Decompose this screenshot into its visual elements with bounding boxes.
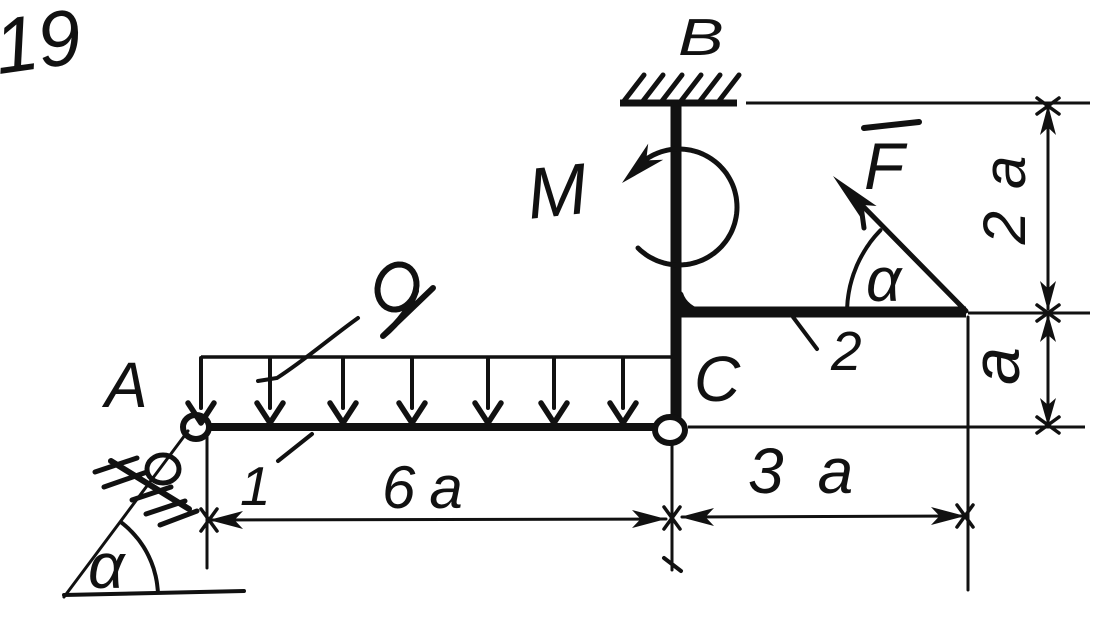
label 3a: [748, 435, 887, 507]
hinge circle at C: [655, 417, 685, 443]
svg-text:α: α: [88, 530, 126, 602]
dimension line 3a: [682, 516, 963, 517]
svg-text:C: C: [694, 343, 741, 415]
leader line for label q: [258, 318, 358, 381]
label A: [101, 349, 148, 421]
label alpha (at F): [866, 246, 903, 315]
dimension 6a right arrow: [632, 510, 666, 528]
crossing ticks at 3a right arrow tip: [957, 505, 973, 527]
label q: [378, 265, 434, 337]
svg-text:A: A: [101, 349, 148, 421]
moment M arrow head: [622, 144, 663, 183]
leader line for label 2: [793, 317, 817, 349]
dimension 2a bottom arrow: [1040, 281, 1056, 311]
label F: [864, 129, 908, 203]
dimension 2a top arrow: [1040, 105, 1056, 135]
svg-text:α: α: [866, 246, 903, 315]
angle alpha arc at F: [847, 230, 880, 313]
fixed support wall at B (surface line): [620, 100, 737, 107]
label 6a: [382, 454, 477, 521]
svg-text:2: 2: [830, 320, 862, 382]
dimension a bottom arrow: [1040, 398, 1056, 426]
dimension 6a left arrow: [209, 511, 243, 529]
bar 2 from corner to right end: [676, 307, 966, 318]
svg-text:1: 1: [240, 455, 271, 517]
tick at bottom of C extension: [664, 558, 681, 571]
svg-text:2a: 2a: [971, 134, 1038, 246]
moment M circular arrow arc: [638, 149, 737, 265]
vector bar over F: [864, 122, 919, 128]
label 1: [240, 455, 271, 517]
distributed load arrows: [188, 358, 636, 423]
beam 1 from A to C: [196, 423, 657, 431]
label 2: [830, 320, 862, 382]
fixed support wall at B (hatching): [624, 75, 739, 101]
label M: [523, 149, 591, 235]
force F arrow head: [833, 176, 877, 220]
top reference line from B support to right edge: [746, 102, 1090, 105]
roller circle at A support: [147, 455, 179, 483]
corner fillet where vertical bar meets bar 2: [681, 291, 706, 311]
dimension 3a right arrow: [931, 507, 965, 525]
leader tick for label 1: [278, 434, 312, 461]
svg-text:F: F: [864, 129, 908, 203]
pin circle at A: [183, 415, 209, 439]
label alpha (at A): [88, 530, 126, 602]
crossing ticks at 6a left arrow tip: [201, 509, 217, 531]
force F arrow barb: [861, 206, 864, 228]
label 19 (problem number): [0, 0, 87, 91]
svg-text:19: 19: [0, 0, 87, 91]
label 2a (rotated): [971, 134, 1038, 246]
inclined link line at A: [64, 431, 188, 597]
svg-text:M: M: [523, 149, 591, 235]
vertical bar from B to C: [671, 104, 682, 420]
force F line: [848, 191, 966, 311]
svg-text:3a: 3a: [748, 435, 887, 507]
crossing ticks at 6a/3a meeting point at C: [664, 507, 680, 529]
dimension line a (vertical): [1047, 315, 1050, 423]
svg-text:6a: 6a: [382, 454, 477, 521]
inclined surface line at A support: [111, 461, 189, 509]
hatching of inclined surface: [95, 458, 197, 525]
extension line below C: [671, 445, 674, 570]
crossing ticks at 2a/a meeting point: [1037, 305, 1059, 321]
svg-text:B: B: [678, 8, 724, 66]
extension line below right end of bar 2: [967, 317, 970, 590]
dimension line 2a (vertical): [1047, 107, 1050, 309]
dimension line 6a: [211, 519, 666, 520]
crossing ticks at a bottom arrow tip: [1037, 417, 1059, 433]
crossing ticks at 2a top arrow tip: [1037, 98, 1059, 114]
ground line at A: [64, 591, 244, 595]
reference line at beam level to right edge: [688, 426, 1085, 429]
dimension a top arrow: [1040, 314, 1056, 342]
extension line below A: [206, 432, 209, 568]
label a (rotated): [958, 347, 1034, 385]
label B: [678, 8, 724, 66]
reference line at bar 2 level to right edge: [968, 312, 1090, 315]
label C: [694, 343, 741, 415]
distributed load top line: [201, 355, 673, 359]
angle alpha arc at A: [122, 523, 158, 592]
dimension 3a left arrow: [680, 508, 714, 526]
